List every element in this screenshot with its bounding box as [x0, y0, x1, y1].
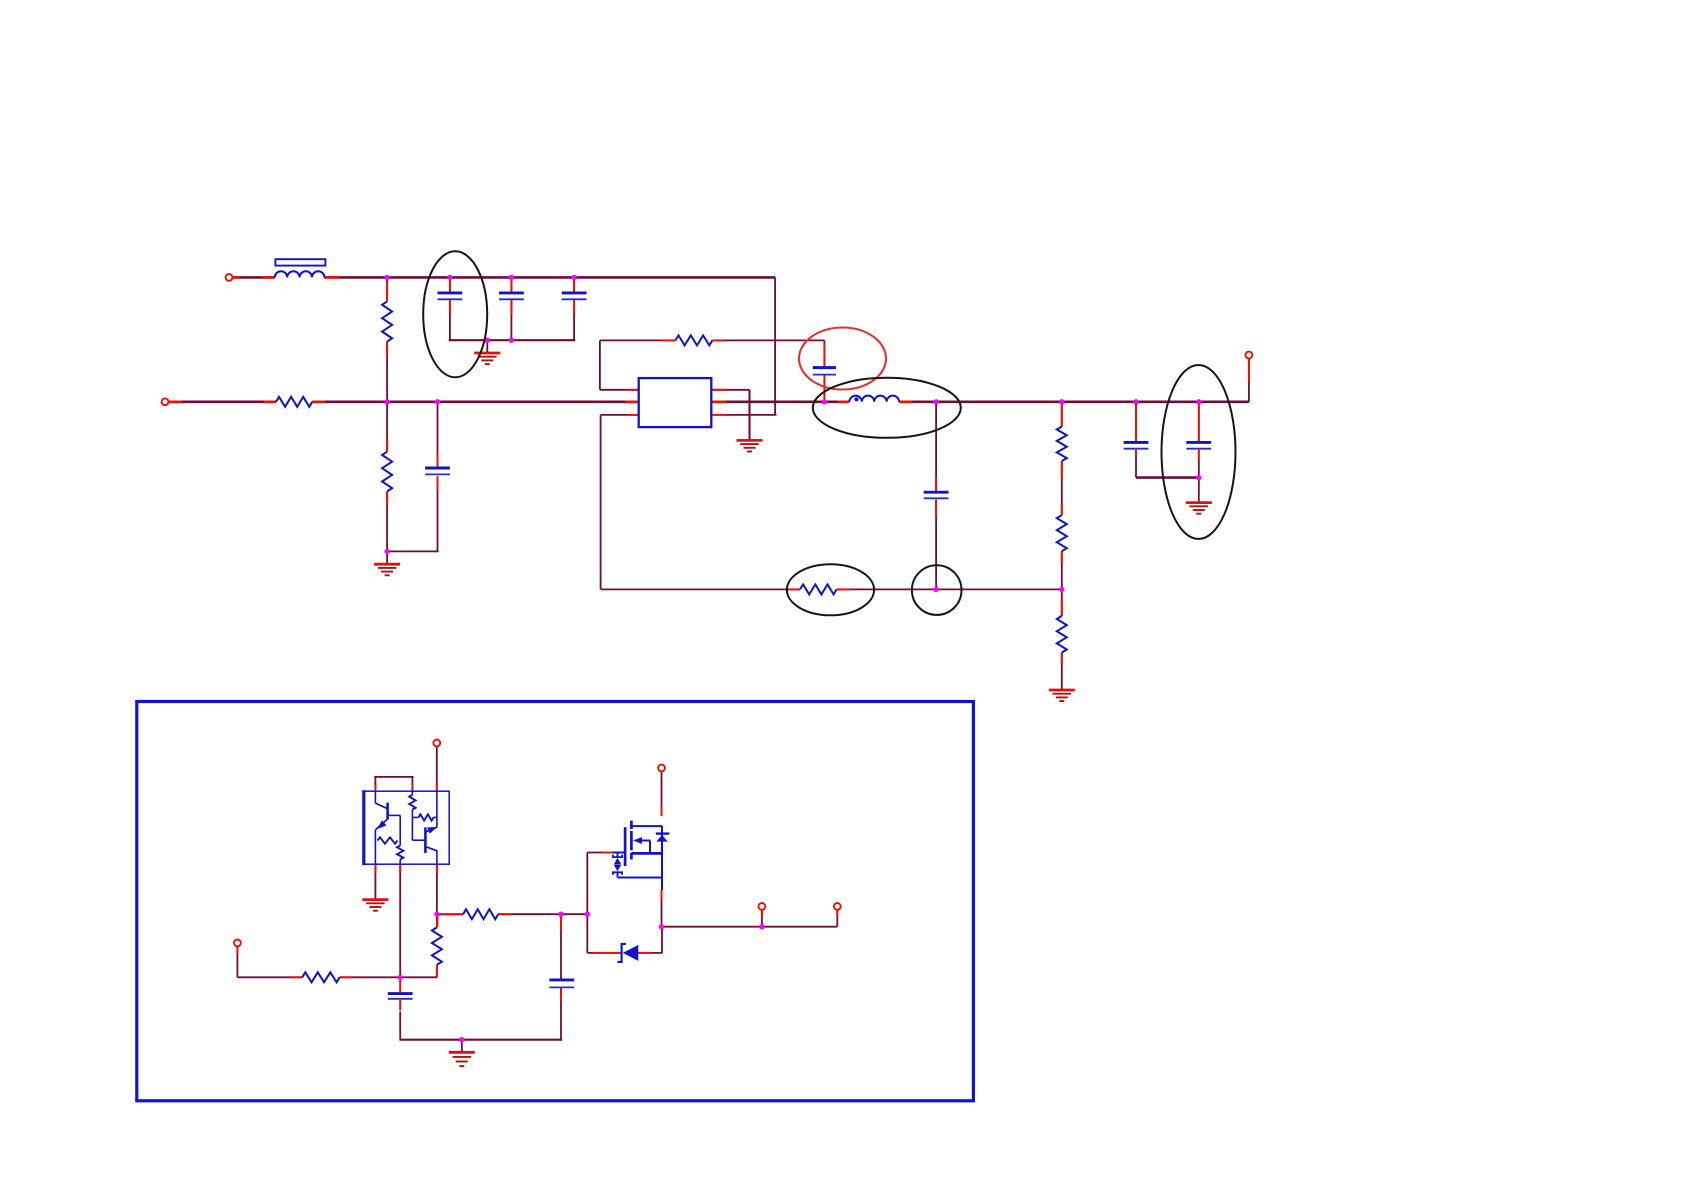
- junction J5: [485, 338, 490, 343]
- terminal P1: [226, 274, 233, 281]
- resistor R4 (feedback): [675, 335, 712, 345]
- wire main line right of IC U1: [712, 400, 850, 403]
- resistor R5 (bottom rail, circled): [800, 584, 837, 594]
- capacitor C8: [1186, 441, 1211, 444]
- zener diode D2: [617, 944, 625, 962]
- P3 stub: [1248, 359, 1250, 382]
- junction J8: [435, 399, 440, 404]
- terminal P4: [433, 740, 440, 747]
- capacitor C6: [924, 491, 949, 494]
- terminal P5: [234, 940, 241, 947]
- wire output cap C8 leg and ground stem: [1198, 402, 1200, 441]
- op-amp U1 (converter IC box): [639, 378, 712, 427]
- MOSFET Q3: [624, 827, 627, 866]
- resistor R2 (upper vertical): [382, 302, 392, 342]
- wire cap C9 leg down to bottom rail: [399, 1012, 401, 1040]
- junction J6: [509, 338, 514, 343]
- junction J24: [759, 924, 764, 929]
- wire zener D2 row: [587, 952, 622, 954]
- capacitor C2: [499, 291, 524, 294]
- gate TVS zener of Q3: [613, 852, 624, 854]
- wire buck node vertical through cap C6: [935, 402, 937, 491]
- C6 stubs: [935, 477, 937, 490]
- wire R10 vertical branch: [436, 914, 438, 927]
- junction J2: [447, 275, 452, 280]
- highlight ellipse around R5: [787, 564, 874, 615]
- ground GND6: [362, 898, 388, 901]
- wire EMI caps bottom rail: [449, 339, 576, 341]
- wire MOSFET drain from terminal P6: [661, 771, 663, 816]
- wire cap C4 branch vertical: [437, 402, 439, 467]
- R4 stubs: [661, 339, 675, 341]
- junction J15: [933, 587, 938, 592]
- capacitor C1: [438, 291, 463, 294]
- junction J23: [659, 924, 664, 929]
- inductor L1: [275, 271, 325, 277]
- wire EMI cap C2 leg: [510, 277, 512, 291]
- resistor R6: [1057, 427, 1067, 461]
- terminal P8: [834, 903, 841, 910]
- L2 stubs: [837, 400, 849, 403]
- wire output cap C7 leg: [1135, 402, 1137, 441]
- body diode of Q3: [656, 832, 670, 834]
- wire main line left of IC U1: [165, 400, 276, 403]
- capacitor C10: [549, 978, 574, 981]
- wire bottom rail of upper circuit: [601, 588, 800, 590]
- highlight ellipse around C7 C8: [1162, 365, 1236, 539]
- inductor L2 with polarity dot: [849, 396, 899, 402]
- resistor R3 (lower vertical): [382, 452, 392, 492]
- wire U2 emitter pin to ground GND6: [374, 865, 376, 899]
- pin stubs (red) upper circuit: [233, 276, 241, 279]
- ground GND4: [1186, 501, 1212, 504]
- capacitor C9: [388, 992, 413, 995]
- wire MOSFET source down to output row: [661, 900, 663, 927]
- resistor R11 (input): [302, 972, 340, 982]
- wire IC pin6 loop bottom: [726, 414, 777, 416]
- junction J19: [558, 912, 563, 917]
- wire ground GND1 stem: [486, 340, 488, 353]
- resistor R9 (gate series): [463, 909, 498, 919]
- junction J14: [1196, 475, 1201, 480]
- resistor R10 (gate pulldown vertical): [432, 927, 442, 964]
- IC U1 pin stubs: [625, 400, 637, 403]
- wire loop linking U2 top pins: [374, 776, 413, 778]
- ground GND3: [737, 439, 763, 442]
- junction J21: [398, 975, 403, 980]
- highlight ellipse around L2: [813, 378, 961, 438]
- wire output cap C7 return: [1136, 476, 1199, 479]
- capacitor C3: [562, 291, 587, 294]
- capacitor C4: [425, 467, 450, 470]
- wire feedback loop: IC pin4 to R4 to cap C5: [600, 389, 639, 391]
- wire cap C10 branch vertical: [560, 914, 562, 979]
- resistor inside U2 (R2 horizontal): [419, 814, 434, 820]
- terminal P2: [162, 398, 169, 405]
- wire IC pin2 to bottom rail: [601, 414, 639, 416]
- wire top rail from input terminal P1 to right vertical: [232, 276, 275, 279]
- wire right vertical from top rail down to IC pin loop: [774, 277, 776, 415]
- wire IC pin5 to ground GND2: [712, 389, 750, 391]
- output cap stubs: [1135, 405, 1137, 441]
- wire U2 output pin down to gate resistor node: [436, 865, 438, 914]
- capacitor C7: [1124, 441, 1149, 444]
- wire bottom rail of driver box: [400, 1039, 563, 1041]
- highlight ellipse around C1: [423, 251, 487, 377]
- junction J17: [384, 549, 389, 554]
- resistor inside U2 (series R vertical): [397, 846, 403, 860]
- resistor R7: [1057, 515, 1067, 551]
- wire input terminal P5 lead: [236, 946, 238, 977]
- junction J9: [822, 399, 827, 404]
- lower box stubs: [436, 783, 438, 790]
- ground GND1: [474, 352, 500, 355]
- wire EMI cap C1 leg: [449, 277, 451, 291]
- wire ground GND7 stem: [461, 1040, 463, 1052]
- wire EMI cap C3 leg: [573, 277, 575, 291]
- ground GND7: [449, 1051, 475, 1054]
- transistor Q2 inside U2: [424, 827, 427, 853]
- C5 stubs: [823, 344, 825, 367]
- wire U2 base network pin down to input node: [399, 865, 401, 977]
- wire left column vertical through R2,R3: [386, 277, 388, 301]
- wire MOSFET source to zener row: [661, 927, 663, 953]
- transistor Q1 inside U2: [374, 790, 376, 803]
- junction J4: [571, 275, 576, 280]
- wire gate net vertical and gate lead: [586, 853, 588, 953]
- wire gate resistor row: [437, 913, 463, 915]
- ground GND2: [374, 563, 400, 566]
- resistor R8: [1057, 616, 1067, 653]
- transistor-array U2 box: [363, 791, 449, 864]
- wire divider chain vertical R6 R7 R8: [1061, 402, 1063, 427]
- wire terminal P4 drop to IC U2: [436, 746, 438, 790]
- wire ground stem below R3: [386, 551, 388, 564]
- junction J1: [384, 275, 389, 280]
- wire cap C4 return to ground node: [386, 550, 439, 552]
- highlight circle around node: [912, 565, 962, 615]
- wire cap C5 vertical to main line: [823, 340, 825, 366]
- junction J13: [1196, 399, 1201, 404]
- ground GND5: [1049, 689, 1075, 692]
- junction J12: [1133, 399, 1138, 404]
- junction J22: [459, 1037, 464, 1042]
- junction J20: [585, 912, 590, 917]
- junction J3: [509, 275, 514, 280]
- driver sub-circuit blue box: [137, 702, 974, 1101]
- red highlight ellipse around C5: [799, 328, 886, 390]
- capacitor C5 (red circled): [813, 366, 836, 369]
- junction J7: [384, 399, 389, 404]
- wire output row to terminals P7 P8: [662, 926, 838, 928]
- junction J11: [1059, 399, 1064, 404]
- wire output terminal P3 drop: [1248, 357, 1250, 402]
- junction J18: [434, 912, 439, 917]
- terminal P6: [658, 765, 665, 772]
- terminal P3: [1246, 352, 1253, 359]
- divider chain stubs: [1061, 406, 1063, 427]
- junction J10: [933, 399, 938, 404]
- junction J16: [1059, 587, 1064, 592]
- resistor R1 (main line): [276, 397, 312, 407]
- resistor inside U2 (base-emitter R): [378, 837, 398, 843]
- terminal P7: [759, 903, 766, 910]
- fuse body above choke L1: [275, 259, 325, 265]
- resistor inside U2 (top R1): [409, 795, 415, 810]
